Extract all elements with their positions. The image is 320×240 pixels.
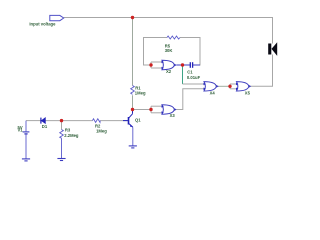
wire R5 feedback box left <box>144 38 168 66</box>
wire battery top lead <box>25 121 27 132</box>
wire right column below speaker <box>251 55 273 87</box>
svg-text:V1: V1 <box>18 128 24 133</box>
diode D1 <box>41 118 45 124</box>
gate X2 <box>162 60 174 69</box>
svg-text:Q1: Q1 <box>135 118 141 123</box>
svg-text:Input voltage: Input voltage <box>29 21 56 26</box>
svg-text:0.01uF: 0.01uF <box>187 75 201 80</box>
wire top horizontal from input tag to right column <box>64 18 273 44</box>
capacitor C1 <box>189 62 191 68</box>
svg-text:X5: X5 <box>245 90 251 95</box>
svg-text:1Meg: 1Meg <box>135 90 146 95</box>
wire X2 output to C1 <box>177 64 191 66</box>
resistor R1 <box>131 86 135 95</box>
input tag symbol <box>50 15 64 20</box>
svg-text:X4: X4 <box>210 91 216 96</box>
wire X2 input stubs <box>150 62 152 68</box>
svg-text:R3: R3 <box>65 127 71 132</box>
wire X3 input stubs <box>150 106 152 113</box>
wire vertical R1 net <box>132 18 134 86</box>
svg-text:X2: X2 <box>166 69 172 74</box>
svg-text:2.2Meg: 2.2Meg <box>64 133 79 138</box>
resistor R2 <box>92 119 100 123</box>
svg-text:30K: 30K <box>165 48 173 53</box>
wire Q1 emitter down <box>132 127 134 146</box>
wire X3 output up to X4 bottom input <box>177 89 205 110</box>
wire X2 output down to X4 top input (teal) <box>182 65 184 84</box>
ground below battery <box>22 158 30 160</box>
wire collector row <box>133 109 152 111</box>
svg-text:X3: X3 <box>170 113 176 118</box>
svg-text:1Meg: 1Meg <box>96 128 107 133</box>
battery V1 <box>23 131 30 133</box>
ground below Q1 <box>129 145 137 147</box>
wire R2 to base <box>100 120 128 122</box>
wire X5 input stubs <box>229 84 231 89</box>
transistor Q1 emitter arrow <box>130 124 133 127</box>
resistor R5 <box>167 36 180 39</box>
transistor Q1 <box>123 112 133 128</box>
wire Q1 collector <box>132 110 134 114</box>
wire R5 feedback box right <box>180 38 200 66</box>
ground below R3 <box>57 158 65 160</box>
wire battery bottom lead <box>25 134 27 159</box>
gate X3 <box>162 105 174 114</box>
gate X5 <box>237 82 249 91</box>
wire X4 output to X5 junction <box>218 85 230 87</box>
speaker SP1 <box>268 42 277 56</box>
wire battery-diode row <box>26 120 41 122</box>
svg-text:D1: D1 <box>42 124 48 129</box>
gate X4 <box>204 82 216 91</box>
node junction dots <box>131 16 134 19</box>
resistor R3 <box>61 121 63 130</box>
svg-text:C1: C1 <box>187 70 193 75</box>
